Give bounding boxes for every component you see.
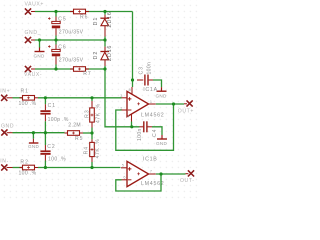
wire R5 to node [83,132,92,134]
junction GND_ / D1 D2 [103,38,106,41]
svg-text:3: 3 [120,94,122,98]
svg-text:GND: GND [156,93,167,98]
svg-text:VAUX-: VAUX- [24,72,42,78]
svg-text:OUT-: OUT- [180,178,195,184]
capacitor C6 [48,40,84,69]
svg-text:47K .%: 47K .% [96,103,102,123]
svg-text:D1: D1 [93,17,99,26]
wire V+ vertical drop to op-amp supply [132,12,134,88]
svg-text:270u/35V: 270u/35V [59,29,84,35]
resistor R1 [19,89,39,108]
svg-text:100n: 100n [147,62,153,75]
svg-text:ZD16: ZD16 [107,45,113,61]
svg-text:C3: C3 [138,66,144,75]
wire IN+ to R1 [7,97,23,99]
wire IN+ line to op-amp [38,97,122,99]
wire IN- line to op-amp [38,167,121,169]
svg-text:100 .%: 100 .% [19,171,37,177]
svg-text:LM4562: LM4562 [141,113,164,119]
svg-text:C4: C4 [152,128,158,137]
supply pin GND_ [25,30,42,43]
wire IN- to R2 [7,167,23,169]
svg-text:GND: GND [28,144,39,149]
ground symbol on GND line [28,133,39,150]
resistor R7 [70,67,92,77]
svg-text:IC1A: IC1A [143,87,158,93]
svg-text:C2: C2 [47,144,56,150]
wire C4 to ground [152,127,162,135]
capacitor C3 [137,62,153,86]
junction IN- / C2 [44,166,47,169]
wire VAUX- rail left [31,68,74,70]
input pin IN- [0,159,9,171]
svg-text:R6: R6 [80,14,89,20]
output pin OUT- [180,170,195,184]
resistor R2 [19,160,39,177]
svg-text:GND: GND [1,123,14,129]
svg-text:C5: C5 [58,16,67,22]
junction IN- / R4 [90,166,93,169]
junction OUT- / feedback [159,172,162,175]
wire GND line [7,132,65,134]
junction VAUX- / D2 [103,67,106,70]
junction IN+ / R3 [90,96,93,99]
ground symbol on GND_ rail [34,40,45,58]
junction OUT+ / feedback [172,102,175,105]
capacitor C4 [137,121,158,141]
svg-text:47K .%: 47K .% [95,139,101,159]
junction VAUX+ / D1 [103,10,106,13]
wire VAUX- rail right [86,68,106,70]
junction R3 R4 R5 node [90,131,93,134]
svg-text:5: 5 [122,164,124,168]
supply pin VAUX+ [25,2,44,15]
svg-text:7: 7 [150,169,152,173]
wire VAUX- vertical drop [105,69,140,127]
wire feedback A from output to inverting input [116,104,174,150]
svg-text:IN-: IN- [0,159,9,165]
svg-text:R4: R4 [83,146,89,155]
junction VAUX- / C6 [54,67,57,70]
op-amp IC1A [120,87,164,122]
svg-text:6: 6 [123,176,125,180]
svg-text:GND_: GND_ [25,30,42,36]
svg-text:IC1B: IC1B [143,157,158,163]
junction IN+ / C1 [44,96,47,99]
junction GND line / C1 C2 [44,131,47,134]
input pin GND [1,123,14,135]
supply pin VAUX- [24,66,42,78]
resistor R5 [65,123,84,142]
resistor R4 [83,133,101,168]
wire GND_ rail [31,39,105,41]
junction VAUX- / pin4 [130,125,133,128]
svg-text:4: 4 [127,115,129,119]
svg-text:2.2M: 2.2M [68,123,81,129]
resistor R6 [70,9,89,20]
svg-text:ZD16: ZD16 [107,11,113,27]
capacitor C5 [48,12,84,41]
ground symbol below C3 [156,87,167,98]
svg-text:R5: R5 [75,136,84,142]
wire VAUX+ rail [31,11,133,13]
input pin IN+ [0,88,10,101]
wire OUT+ line [156,103,184,105]
wire op-amp A supply pin 4 to VAUX- [131,122,133,127]
svg-text:D2: D2 [93,51,99,60]
svg-text:R1: R1 [21,89,30,95]
svg-text:R3: R3 [85,109,91,118]
diode D1 [93,11,113,40]
svg-text:GND: GND [34,53,45,58]
op-amp IC1B [121,157,164,187]
wire feedback B from output to inverting input [116,174,161,191]
junction GND line / gnd symbol [32,131,35,134]
output pin OUT+ [178,100,194,114]
capacitor C1 [40,98,68,133]
svg-text:IN+: IN+ [0,88,10,94]
svg-text:100 .%: 100 .% [48,157,66,163]
wire C3 to ground [153,80,162,87]
svg-text:C1: C1 [48,103,57,109]
svg-text:R2: R2 [20,160,29,166]
svg-text:270u/35V: 270u/35V [59,58,84,64]
ground symbol below C4 [156,135,167,146]
svg-text:GND: GND [156,141,167,146]
svg-text:1: 1 [150,100,152,104]
junction GND_ / gnd symbol [38,38,41,41]
capacitor C2 [40,133,66,168]
svg-text:100n: 100n [137,128,143,141]
svg-text:VAUX+: VAUX+ [25,2,44,8]
resistor R3 [85,98,102,133]
svg-text:100p .%: 100p .% [48,117,69,123]
junction V+ / C3 / pin8 [131,78,134,81]
svg-text:C6: C6 [58,44,67,50]
svg-text:100 .%: 100 .% [19,101,37,107]
svg-text:R7: R7 [83,71,92,77]
diode D2 [93,40,113,69]
junction GND_ / C5 C6 [54,38,57,41]
svg-text:8: 8 [129,88,131,92]
junction VAUX+ / C5 [54,10,57,13]
wire OUT- line [156,173,186,175]
svg-text:OUT+: OUT+ [178,108,194,114]
